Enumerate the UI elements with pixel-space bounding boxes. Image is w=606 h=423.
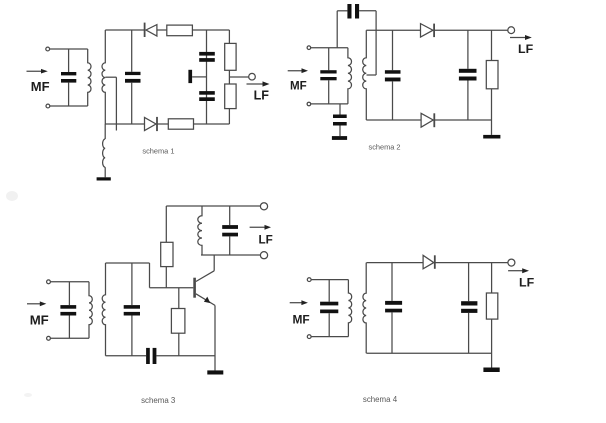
svg-text:schema 2: schema 2: [369, 142, 401, 151]
svg-text:MF: MF: [30, 312, 49, 327]
svg-text:MF: MF: [293, 313, 310, 327]
svg-text:schema 1: schema 1: [142, 147, 174, 156]
svg-text:LF: LF: [519, 275, 535, 289]
svg-text:LF: LF: [259, 233, 273, 246]
svg-text:LF: LF: [518, 42, 534, 56]
svg-text:LF: LF: [254, 89, 270, 103]
svg-text:schema 4: schema 4: [363, 395, 398, 404]
svg-text:MF: MF: [31, 79, 50, 94]
svg-text:MF: MF: [290, 80, 307, 93]
svg-text:schema 3: schema 3: [141, 396, 176, 405]
